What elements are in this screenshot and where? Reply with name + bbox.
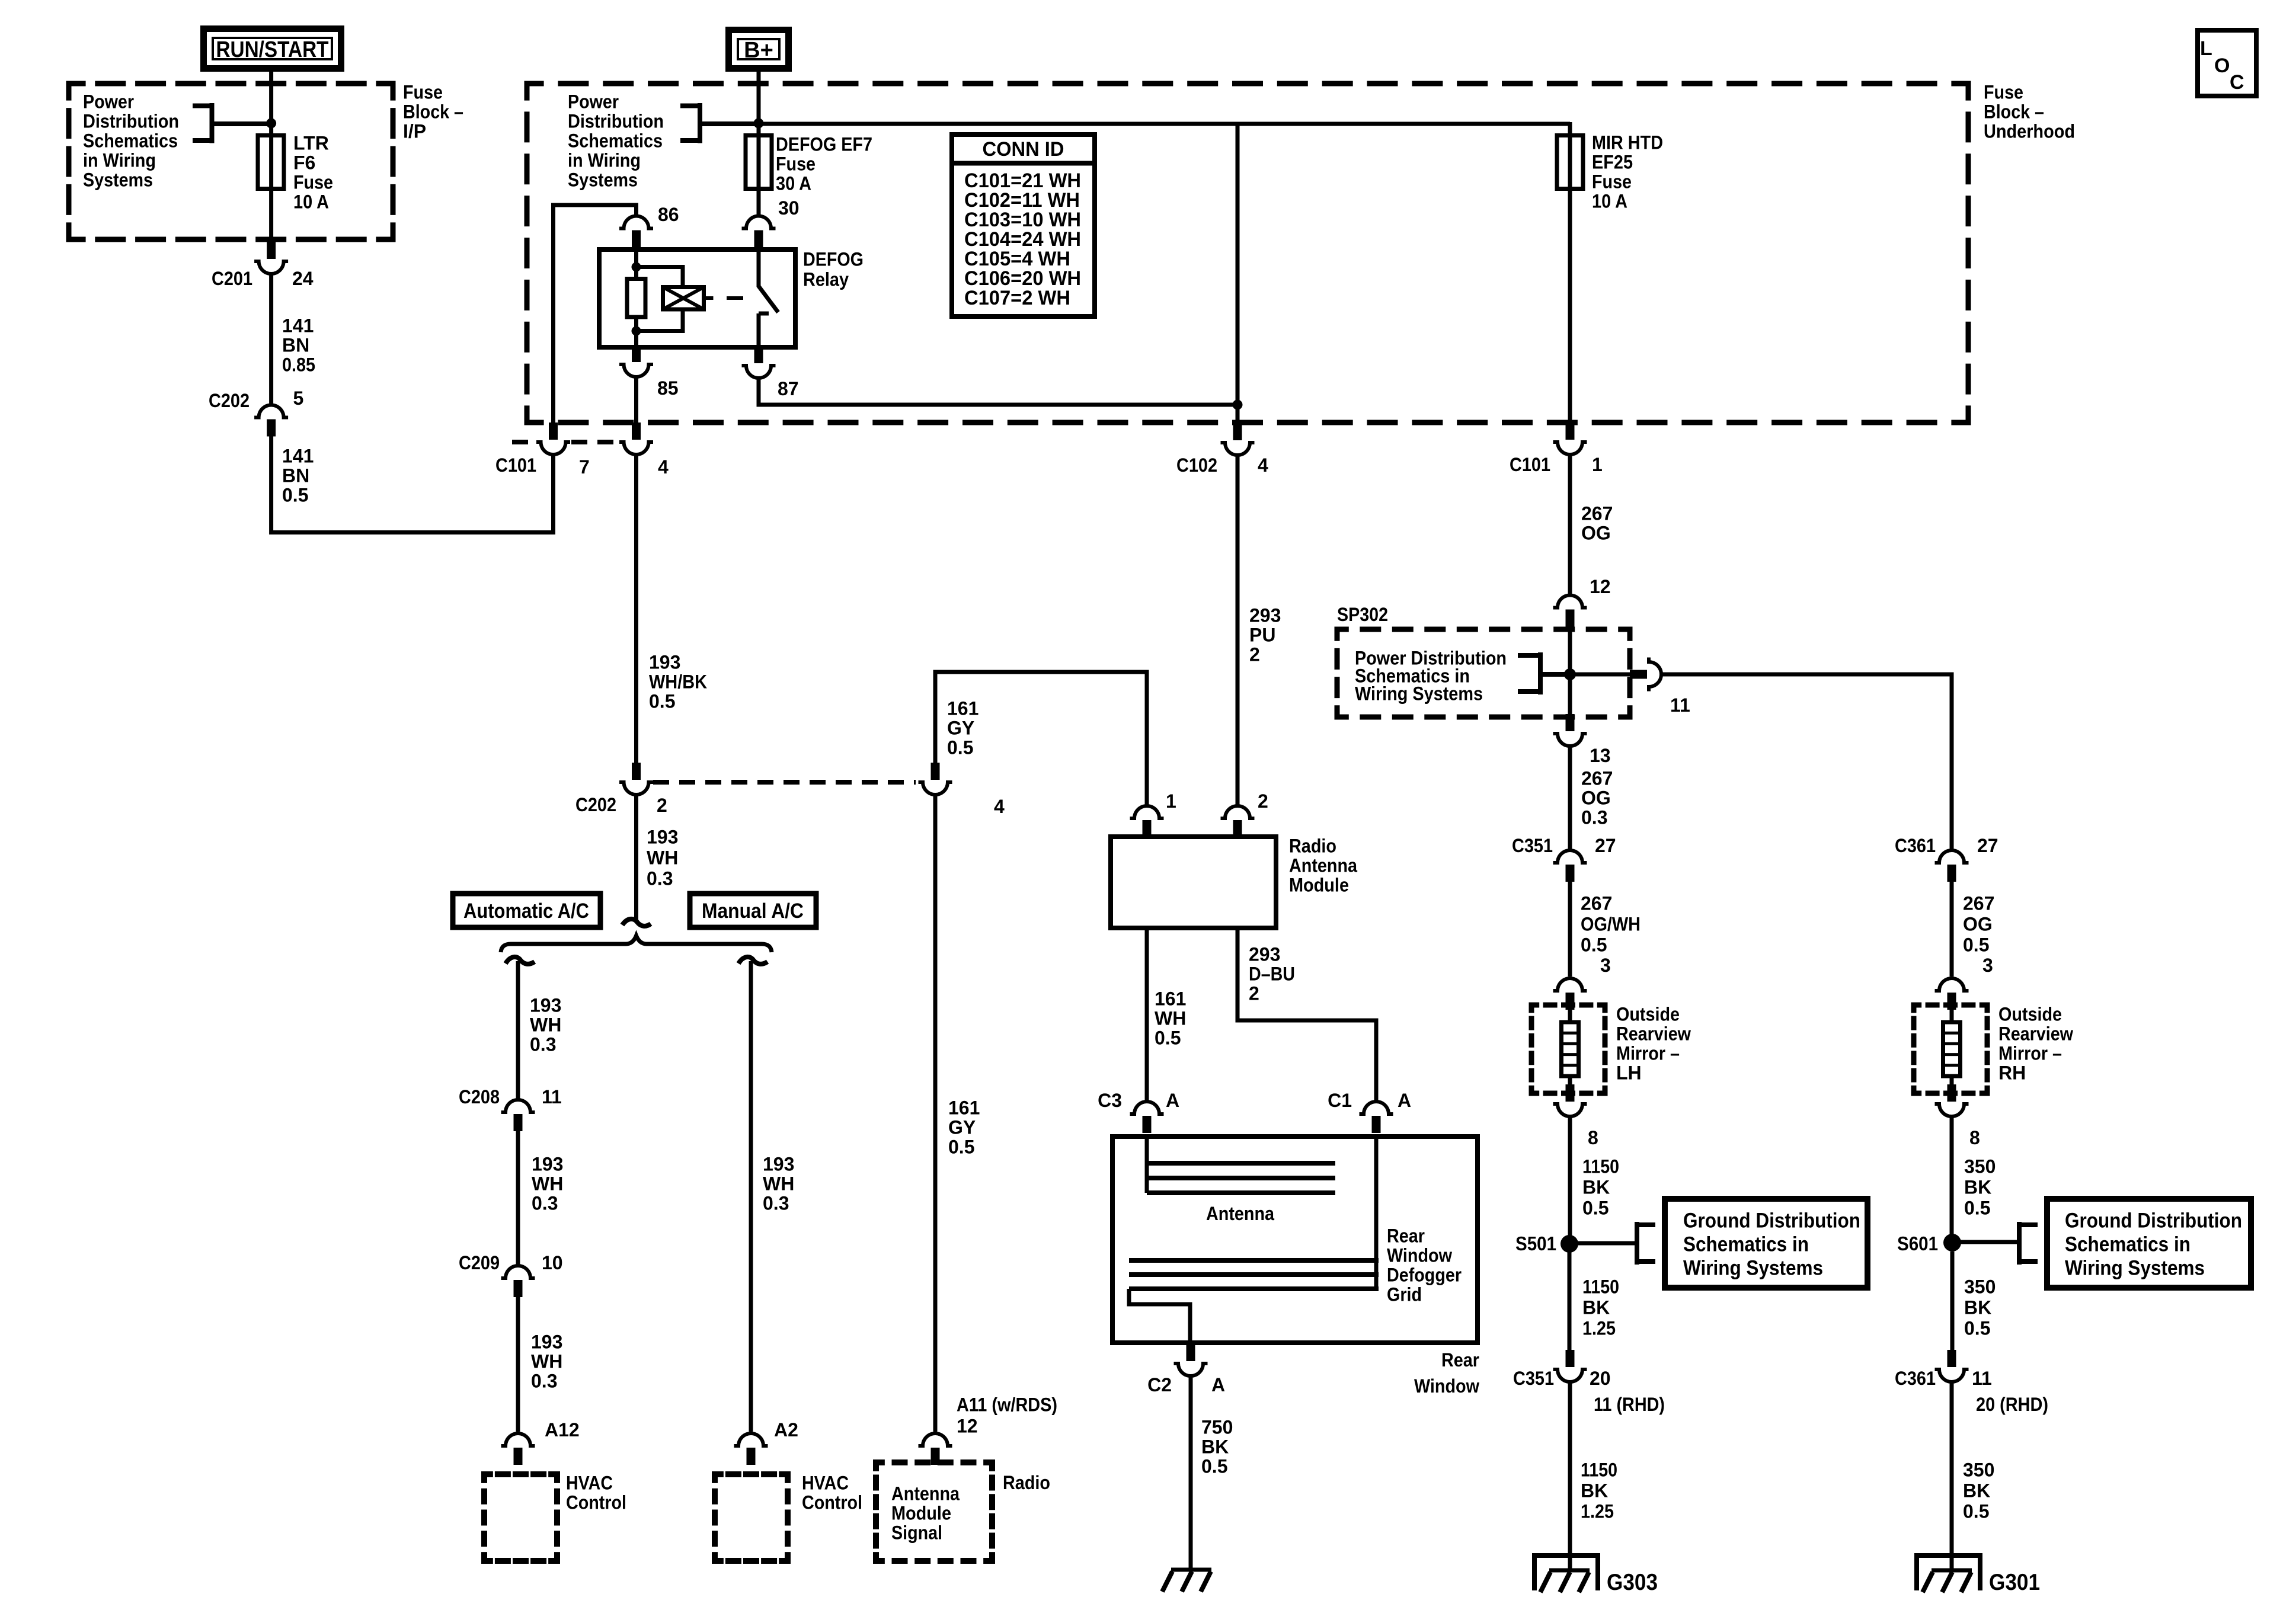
svg-text:A12: A12 (545, 1419, 580, 1441)
svg-text:193: 193 (647, 826, 678, 847)
svg-text:293: 293 (1249, 943, 1280, 965)
svg-text:G303: G303 (1607, 1570, 1658, 1595)
svg-text:BK: BK (1582, 1297, 1610, 1318)
wire C201 to C202 (269, 274, 273, 405)
svg-text:Grid: Grid (1387, 1283, 1422, 1305)
svg-text:C361: C361 (1895, 835, 1936, 856)
svg-text:in Wiring: in Wiring (568, 149, 641, 171)
svg-text:LH: LH (1616, 1062, 1642, 1083)
heater element mirror RH (1943, 1022, 1961, 1076)
svg-text:350: 350 (1964, 1276, 1996, 1297)
splice SP302 dashed box (1337, 629, 1630, 717)
svg-text:WH: WH (531, 1350, 562, 1372)
relay resistor (627, 279, 645, 318)
svg-text:193: 193 (530, 994, 561, 1016)
svg-text:267: 267 (1581, 892, 1612, 914)
svg-text:87: 87 (778, 378, 799, 399)
svg-text:Systems: Systems (568, 169, 638, 190)
connector C3 pin A (1130, 1102, 1164, 1114)
svg-text:C102: C102 (1176, 454, 1217, 476)
ground at C2 (1171, 1568, 1211, 1572)
svg-text:11 (RHD): 11 (RHD) (1594, 1394, 1665, 1415)
svg-text:1150: 1150 (1582, 1276, 1619, 1297)
svg-text:11: 11 (542, 1086, 562, 1108)
svg-text:Defogger: Defogger (1387, 1264, 1462, 1285)
svg-text:350: 350 (1964, 1156, 1996, 1177)
svg-text:BK: BK (1963, 1480, 1990, 1501)
relay coil X-box (663, 287, 704, 310)
svg-text:30: 30 (778, 197, 800, 219)
svg-text:Control: Control (802, 1491, 862, 1513)
svg-text:Distribution: Distribution (83, 110, 179, 132)
note Ground Distribution (RH) (2047, 1199, 2251, 1288)
svg-text:BN: BN (282, 334, 309, 356)
svg-text:0.3: 0.3 (530, 1033, 556, 1055)
svg-text:267: 267 (1581, 767, 1613, 789)
svg-text:OG: OG (1581, 787, 1611, 808)
svg-text:BK: BK (1581, 1480, 1608, 1501)
wire through mirror RH (1950, 1010, 1954, 1084)
svg-text:D–BU: D–BU (1249, 963, 1295, 984)
svg-text:Module: Module (1289, 874, 1349, 895)
svg-text:C208: C208 (459, 1086, 500, 1108)
svg-text:3: 3 (1600, 955, 1611, 976)
bracket S501 note (1637, 1222, 1655, 1265)
wire C351-20 to G303 (1568, 1382, 1572, 1570)
svg-text:0.3: 0.3 (647, 868, 673, 889)
note Ground Distribution (LH) (1665, 1199, 1868, 1288)
wire C202-2 to brace (634, 795, 638, 920)
svg-text:27: 27 (1977, 835, 1998, 856)
wire SP302 to C351 (1568, 746, 1572, 849)
svg-text:Block –: Block – (403, 101, 463, 122)
svg-text:C201: C201 (212, 268, 252, 289)
connector C101 pin 4 (632, 422, 641, 440)
svg-text:Fuse: Fuse (293, 171, 333, 193)
svg-text:EF25: EF25 (1592, 151, 1633, 172)
svg-text:C: C (2230, 71, 2244, 94)
svg-text:1: 1 (1592, 454, 1603, 475)
svg-text:0.5: 0.5 (1581, 934, 1607, 955)
splice S601 (1943, 1234, 1961, 1251)
wire C202-4 to radio A11 (933, 795, 938, 1432)
wire bus corner to C101-1 (1568, 122, 1572, 423)
svg-text:267: 267 (1581, 502, 1613, 524)
svg-text:Mirror –: Mirror – (1998, 1042, 2062, 1064)
svg-text:1.25: 1.25 (1582, 1317, 1616, 1339)
svg-text:WH: WH (1155, 1007, 1186, 1029)
svg-text:0.5: 0.5 (948, 1136, 974, 1157)
junction node below B+ (754, 119, 764, 129)
wire end hook above brace (622, 919, 651, 926)
heater element mirror LH (1562, 1022, 1579, 1076)
connector C201 pin 24 (267, 242, 276, 259)
svg-text:I/P: I/P (403, 120, 426, 142)
svg-text:141: 141 (282, 315, 314, 336)
fuse LTR F6 10A (258, 136, 284, 189)
svg-text:1150: 1150 (1581, 1459, 1617, 1480)
svg-text:1150: 1150 (1582, 1156, 1619, 1177)
connector A2 (734, 1433, 768, 1446)
wire mirror RH to S601 (1950, 1116, 1954, 1243)
connector C101 pin 7 (549, 422, 558, 440)
svg-text:1: 1 (1166, 790, 1176, 812)
svg-text:Rear: Rear (1387, 1225, 1425, 1246)
svg-text:Manual A/C: Manual A/C (702, 900, 804, 923)
svg-text:Block –: Block – (1984, 101, 2044, 122)
svg-text:8: 8 (1969, 1127, 1980, 1148)
svg-text:Power: Power (83, 91, 134, 112)
svg-text:0.5: 0.5 (1964, 1197, 1990, 1218)
wire relay 86 to C101-7 (554, 205, 637, 422)
svg-text:Schematics: Schematics (568, 130, 663, 151)
svg-text:Antenna: Antenna (1206, 1203, 1274, 1224)
wire mirror LH to S501 (1568, 1116, 1572, 1244)
defogger grid wires (1374, 1137, 1379, 1289)
wire module to C3 (1145, 928, 1149, 1100)
wire C202-5 down-right-up to C101-7 (271, 436, 554, 533)
svg-text:0.85: 0.85 (282, 354, 315, 375)
svg-text:C1: C1 (1328, 1090, 1352, 1111)
svg-text:350: 350 (1963, 1459, 1994, 1480)
svg-text:20: 20 (1590, 1368, 1611, 1389)
svg-text:O: O (2214, 55, 2230, 77)
svg-text:LTR: LTR (293, 132, 329, 153)
svg-text:OG: OG (1581, 522, 1611, 543)
svg-text:Fuse: Fuse (403, 81, 443, 103)
connector C202 pin 2 (632, 763, 641, 780)
wire junction to C201 (269, 123, 273, 242)
relay pin 30 connector (742, 216, 776, 229)
label box Automatic A/C (453, 894, 600, 927)
wire RUN/START to junction (269, 72, 273, 123)
svg-text:DEFOG EF7: DEFOG EF7 (776, 133, 872, 155)
svg-text:C351: C351 (1513, 1368, 1554, 1389)
splice node SP302 (1564, 668, 1576, 680)
svg-text:C351: C351 (1512, 835, 1553, 856)
svg-text:2: 2 (657, 795, 667, 816)
svg-text:G301: G301 (1989, 1570, 2040, 1595)
label box Manual A/C (690, 894, 816, 927)
wire manual branch to A2 (749, 961, 753, 1432)
connector C202 interface dashes (653, 780, 916, 785)
svg-text:193: 193 (531, 1331, 562, 1352)
svg-text:Underhood: Underhood (1984, 120, 2075, 142)
wire 87 to C102 node (759, 378, 1237, 405)
svg-text:DEFOG: DEFOG (803, 248, 864, 270)
svg-text:141: 141 (282, 445, 314, 466)
svg-text:Rearview: Rearview (1998, 1023, 2073, 1044)
svg-text:MIR HTD: MIR HTD (1592, 132, 1663, 153)
svg-text:193: 193 (649, 651, 680, 673)
svg-text:BK: BK (1582, 1176, 1610, 1198)
svg-text:Rearview: Rearview (1616, 1023, 1691, 1044)
fuse block I/P dashed border (69, 84, 393, 239)
svg-text:Radio: Radio (1289, 835, 1336, 856)
relay node bottom (632, 327, 641, 336)
svg-text:B+: B+ (744, 38, 773, 63)
wire C102 to antenna module pin 2 (1236, 455, 1240, 805)
wire S601 to bracket (1952, 1240, 2017, 1244)
relay actuator link (704, 296, 744, 300)
svg-text:85: 85 (657, 377, 679, 399)
svg-text:2: 2 (1249, 982, 1259, 1004)
svg-text:27: 27 (1595, 835, 1616, 856)
wire C101-1 to SP302 (1568, 454, 1572, 594)
relay pin 85 connector (632, 345, 641, 362)
svg-text:C101: C101 (495, 454, 536, 476)
svg-text:Rear: Rear (1441, 1349, 1479, 1371)
svg-text:12: 12 (1590, 576, 1611, 597)
svg-text:Schematics in: Schematics in (2065, 1233, 2191, 1256)
fuse block Underhood dashed border (527, 84, 1968, 422)
svg-text:HVAC: HVAC (566, 1472, 613, 1493)
svg-text:10 A: 10 A (1592, 190, 1627, 212)
svg-text:in Wiring: in Wiring (83, 149, 156, 171)
svg-text:C107=2 WH: C107=2 WH (964, 287, 1070, 309)
svg-text:Fuse: Fuse (1984, 81, 2023, 103)
svg-text:Window: Window (1414, 1375, 1479, 1397)
bracket to note (I/P) (193, 103, 271, 143)
svg-text:293: 293 (1249, 604, 1281, 626)
svg-text:0.5: 0.5 (1201, 1455, 1227, 1477)
svg-text:Control: Control (566, 1491, 626, 1513)
svg-text:BN: BN (282, 465, 309, 486)
svg-text:161: 161 (947, 697, 978, 719)
svg-text:0.3: 0.3 (532, 1192, 558, 1214)
wire C209 to A12 (516, 1297, 520, 1432)
svg-text:L: L (2200, 37, 2212, 60)
svg-text:4: 4 (658, 456, 669, 478)
svg-text:Wiring Systems: Wiring Systems (1683, 1257, 1823, 1280)
svg-text:2: 2 (1249, 644, 1260, 665)
svg-text:C101: C101 (1510, 454, 1550, 475)
ground G301 (1914, 1555, 1982, 1590)
connector mirror RH pin 8 (1948, 1084, 1956, 1102)
connector C351 pin 27 (1553, 850, 1587, 863)
wire S501 to C351-20 (1568, 1252, 1572, 1350)
svg-text:Automatic A/C: Automatic A/C (463, 900, 589, 923)
splice S501 (1560, 1235, 1578, 1253)
svg-text:A2: A2 (774, 1419, 798, 1441)
svg-text:F6: F6 (293, 152, 315, 173)
svg-text:0.3: 0.3 (763, 1192, 789, 1214)
svg-text:WH: WH (530, 1014, 561, 1035)
svg-text:S601: S601 (1897, 1233, 1938, 1254)
connector C361 pin 11 (1948, 1350, 1956, 1367)
wire C361-11 to G301 (1950, 1382, 1954, 1570)
connector module pin 1 (1130, 806, 1164, 818)
wire S601 to C361-11 (1950, 1251, 1955, 1350)
connector 12 at SP302 (1553, 596, 1587, 608)
svg-text:Signal: Signal (891, 1522, 942, 1543)
svg-text:8: 8 (1588, 1127, 1598, 1148)
power label RUN/START (204, 29, 341, 69)
svg-text:30 A: 30 A (776, 172, 811, 194)
svg-text:4: 4 (994, 796, 1005, 817)
svg-text:S501: S501 (1515, 1233, 1556, 1254)
svg-text:OG/WH: OG/WH (1581, 913, 1641, 934)
svg-text:BK: BK (1201, 1436, 1229, 1457)
relay DEFOG box (599, 249, 795, 347)
fuse DEFOG EF7 30A (746, 136, 772, 189)
svg-text:Module: Module (891, 1502, 951, 1523)
svg-text:750: 750 (1201, 1416, 1233, 1438)
svg-text:WH: WH (763, 1173, 794, 1194)
wire SP302 to right connector (1570, 673, 1631, 677)
wire C2 to ground (1189, 1376, 1193, 1570)
svg-text:GY: GY (948, 1116, 976, 1138)
svg-text:Outside: Outside (1998, 1003, 2062, 1025)
svg-text:Fuse: Fuse (1592, 171, 1632, 192)
relay left wire (634, 241, 638, 347)
svg-text:161: 161 (1155, 988, 1186, 1009)
svg-text:7: 7 (579, 456, 590, 478)
brace (501, 936, 772, 952)
wire S501 to bracket (1569, 1241, 1635, 1246)
svg-text:0.5: 0.5 (1964, 1317, 1990, 1339)
module Radio dashed box (876, 1462, 992, 1561)
wire 161GY bridge (935, 672, 1147, 805)
svg-text:0.5: 0.5 (1582, 1197, 1609, 1218)
svg-text:Radio: Radio (1003, 1472, 1050, 1493)
svg-text:Wiring Systems: Wiring Systems (2065, 1257, 2205, 1280)
svg-text:5: 5 (293, 388, 304, 409)
relay switch (759, 241, 778, 347)
svg-text:0.5: 0.5 (282, 484, 308, 505)
bracket to note (Underhood) (680, 103, 759, 143)
svg-text:Antenna: Antenna (1289, 854, 1357, 876)
svg-text:C3: C3 (1098, 1090, 1122, 1111)
wire C101-4 to C202-2 (634, 454, 638, 763)
connector C208 pin 11 (501, 1100, 535, 1112)
connector C209 pin 10 (501, 1266, 535, 1278)
module HVAC Control dashed box (auto) (484, 1474, 557, 1561)
bus wire to MIR HTD branch (759, 122, 1570, 126)
svg-text:RH: RH (1998, 1062, 2026, 1083)
svg-text:Outside: Outside (1616, 1003, 1680, 1025)
module HVAC Control dashed box (manual) (715, 1474, 788, 1561)
svg-text:10 A: 10 A (293, 191, 329, 212)
svg-text:0.5: 0.5 (1963, 934, 1989, 955)
svg-text:Schematics in: Schematics in (1683, 1233, 1809, 1256)
svg-text:0.5: 0.5 (947, 737, 973, 758)
svg-text:193: 193 (763, 1153, 794, 1174)
svg-text:C361: C361 (1895, 1368, 1936, 1389)
junction node above C102 (1233, 400, 1243, 410)
wire to RH column (1661, 674, 1952, 849)
svg-text:GY: GY (947, 717, 974, 738)
svg-text:Systems: Systems (83, 169, 153, 190)
svg-text:BK: BK (1964, 1176, 1991, 1198)
svg-text:193: 193 (532, 1153, 563, 1174)
svg-text:24: 24 (292, 268, 314, 289)
connector C351 pin 20 (1566, 1350, 1575, 1367)
connector mirror LH pin 8 (1566, 1084, 1575, 1102)
junction node at LTR fuse (266, 119, 276, 129)
wire C208 to C209 (516, 1131, 520, 1265)
svg-text:Window: Window (1387, 1244, 1452, 1266)
module Outside Rearview Mirror RH dashed box (1914, 1005, 1987, 1093)
svg-text:4: 4 (1258, 454, 1268, 476)
svg-text:Distribution: Distribution (568, 110, 664, 132)
svg-text:Ground Distribution: Ground Distribution (1683, 1209, 1860, 1233)
connector mirror RH pin 3 (1935, 978, 1969, 991)
svg-text:A11 (w/RDS): A11 (w/RDS) (957, 1394, 1057, 1415)
svg-text:C202: C202 (209, 390, 250, 411)
svg-text:11: 11 (1972, 1368, 1992, 1389)
hook automatic branch (506, 957, 535, 964)
wire 85 to C101-4 (634, 377, 638, 422)
svg-text:WH: WH (647, 847, 678, 868)
fuse MIR HTD EF25 10A (1557, 136, 1583, 189)
connector C1 pin A (1360, 1102, 1393, 1114)
svg-text:Power: Power (568, 91, 619, 112)
svg-text:0.5: 0.5 (649, 690, 675, 712)
power label B+ (729, 30, 789, 69)
connector A11 (919, 1433, 952, 1446)
svg-text:13: 13 (1590, 745, 1611, 766)
svg-text:WH/BK: WH/BK (649, 671, 707, 692)
wire module to C1 (1237, 928, 1376, 1100)
svg-text:CONN ID: CONN ID (983, 138, 1064, 161)
connector C2 pin A (1187, 1344, 1195, 1361)
svg-text:A: A (1398, 1090, 1411, 1111)
wire through mirror LH (1568, 1010, 1572, 1084)
svg-text:WH: WH (532, 1173, 563, 1194)
module Radio Antenna Module box (1111, 837, 1276, 928)
module Outside Rearview Mirror LH dashed box (1531, 1005, 1605, 1093)
relay pin 86 connector (619, 216, 653, 229)
svg-text:0.3: 0.3 (1581, 806, 1607, 828)
connector mirror LH pin 3 (1553, 978, 1587, 991)
connector C202 pin 5 (254, 405, 288, 418)
module Rear Window box (1112, 1137, 1478, 1343)
table CONN ID (952, 135, 1095, 316)
wire C361-27 to mirror pin 3 (1950, 882, 1954, 977)
connector pin 11 cup (1649, 658, 1661, 692)
connector C361 pin 27 (1935, 850, 1969, 863)
connector A12 (501, 1433, 535, 1446)
svg-text:0.5: 0.5 (1155, 1027, 1181, 1048)
hook manual branch (738, 957, 768, 964)
svg-text:86: 86 (658, 204, 679, 225)
connector C202 pin 4 (931, 763, 940, 780)
connector C101 pin 1 (1566, 422, 1575, 440)
legend LOC box (2198, 30, 2256, 96)
svg-text:267: 267 (1963, 892, 1994, 914)
svg-text:Mirror –: Mirror – (1616, 1042, 1680, 1064)
wire C102 feeder from bus (1236, 124, 1240, 423)
relay node top (632, 263, 641, 272)
svg-text:Wiring Systems: Wiring Systems (1355, 683, 1483, 704)
svg-text:C2: C2 (1147, 1374, 1172, 1395)
connector C101 interface dashes (512, 440, 621, 444)
svg-text:RUN/START: RUN/START (216, 37, 329, 62)
svg-text:2: 2 (1258, 790, 1268, 812)
connector module pin 2 (1221, 806, 1255, 818)
svg-text:0.5: 0.5 (1963, 1500, 1989, 1522)
wire C351-27 to mirror pin 3 (1568, 882, 1572, 977)
svg-text:C202: C202 (575, 794, 616, 815)
svg-text:OG: OG (1963, 913, 1993, 934)
wire automatic branch to C208 (516, 961, 520, 1099)
svg-text:161: 161 (948, 1097, 980, 1118)
svg-text:A: A (1211, 1374, 1225, 1395)
relay pin 87 connector (754, 346, 763, 363)
relay coil branch wires (637, 267, 683, 331)
svg-text:Antenna: Antenna (891, 1483, 960, 1504)
